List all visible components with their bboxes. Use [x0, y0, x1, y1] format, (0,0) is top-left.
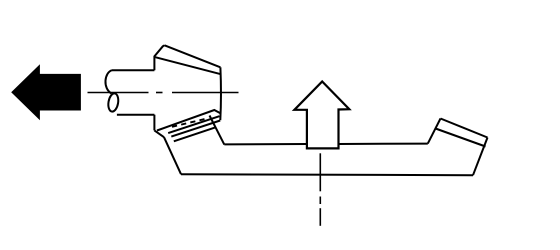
vertical centerline (dash-dot) [319, 153, 321, 226]
lever far-edge diagonal at flange [210, 116, 225, 145]
cone lower-left vertical [153, 115, 155, 131]
solid left arrow [11, 64, 81, 120]
up arrow outline [294, 82, 349, 149]
lever flange hidden dashed line [172, 118, 208, 126]
lever right tip end edge [473, 138, 488, 176]
lever right tip top edge [441, 119, 488, 138]
cone top edge [165, 45, 221, 67]
spout cylinder left end arc [105, 70, 112, 93]
lever bottom edge [181, 174, 473, 175]
lever right tip rise diagonal [428, 119, 441, 144]
lever flange line L3 [168, 116, 219, 133]
spout cylinder top line [112, 69, 154, 71]
cone right edge [219, 67, 222, 120]
lever right tip inner line [436, 129, 486, 147]
lever top edge left segment [224, 143, 307, 145]
lever left flange hook [154, 130, 164, 137]
lever flange line L4 [171, 121, 220, 137]
lever flange outer line L1 [157, 110, 220, 131]
lever top edge right segment [339, 143, 428, 145]
spout outlet ellipse [107, 93, 120, 113]
spout cylinder bottom line [117, 114, 154, 116]
cone chamfer inner line [155, 57, 221, 74]
horizontal centerline (dash-dot) [88, 92, 239, 94]
lever left edge [164, 137, 181, 174]
lever flange line L5 [174, 127, 216, 141]
cone left step (upper vertical) [154, 45, 164, 70]
